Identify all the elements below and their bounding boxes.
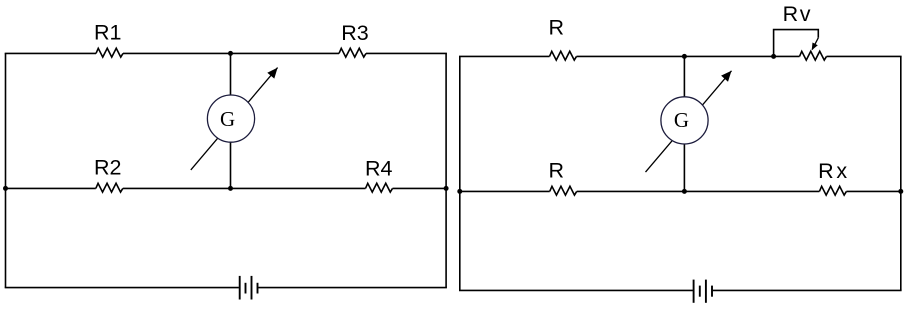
svg-text:R2: R2 xyxy=(94,156,121,180)
svg-text:R: R xyxy=(549,159,565,183)
node: middle galvanometer junction xyxy=(228,186,233,191)
svg-text:R4: R4 xyxy=(365,157,393,181)
wire middle center segment xyxy=(123,187,366,189)
wire Rv wiper bracket xyxy=(774,30,819,57)
wire top middle segment xyxy=(577,55,800,57)
wire middle center segment xyxy=(577,190,820,192)
svg-text:G: G xyxy=(220,107,235,131)
wire right edge right circuit xyxy=(900,56,902,290)
galvanometer needle line (under circle) xyxy=(191,68,278,170)
battery B2 xyxy=(694,280,712,303)
svg-text:Rv: Rv xyxy=(783,2,811,26)
wire galvanometer branch vertical xyxy=(230,53,232,188)
wire bottom right segment xyxy=(713,289,902,291)
node: right middle junction xyxy=(898,189,903,194)
resistor R2 xyxy=(96,183,123,192)
wire bottom left segment xyxy=(5,287,239,289)
battery B1 xyxy=(240,276,258,300)
svg-text:Rx: Rx xyxy=(818,159,847,183)
wire middle left segment xyxy=(459,190,550,192)
wire top right segment xyxy=(827,55,902,57)
galvanometer needle arrowhead xyxy=(267,68,277,79)
wire top right segment xyxy=(366,52,447,54)
resistor R1 xyxy=(96,48,123,57)
node: middle galvanometer junction xyxy=(682,189,687,194)
resistor R top xyxy=(550,51,577,60)
Rv wiper arrow line xyxy=(812,38,818,50)
node: top galvanometer junction xyxy=(682,54,687,59)
svg-text:R: R xyxy=(549,16,565,40)
wire middle right segment xyxy=(393,187,447,189)
resistor R3 xyxy=(339,48,366,57)
wire bottom left segment xyxy=(459,289,693,291)
node: Rv bracket junction xyxy=(771,54,776,59)
wire galvanometer branch vertical xyxy=(683,56,685,191)
node: right middle junction xyxy=(444,186,449,191)
resistor R4 xyxy=(366,183,393,192)
wire top left segment xyxy=(459,55,550,57)
wire top left segment xyxy=(5,52,96,54)
node: top galvanometer junction xyxy=(228,51,233,56)
wire left edge xyxy=(5,53,7,287)
galvanometer needle line (under circle) xyxy=(646,71,732,172)
wire middle left segment xyxy=(5,187,96,189)
resistor R bottom xyxy=(550,186,577,195)
galvanometer needle arrowhead xyxy=(721,71,731,82)
wire bottom right segment xyxy=(258,287,447,289)
wire top middle segment xyxy=(123,52,339,54)
galvanometer G1 circle xyxy=(207,95,254,142)
resistor Rx xyxy=(819,186,846,195)
svg-text:G: G xyxy=(674,108,689,132)
Rv wiper arrowhead xyxy=(812,43,818,51)
galvanometer G2 circle xyxy=(661,97,708,144)
resistor Rv zigzag xyxy=(800,51,827,60)
node: left middle junction xyxy=(457,189,462,194)
node: left middle junction xyxy=(3,186,8,191)
wire right edge xyxy=(445,53,447,287)
svg-text:R1: R1 xyxy=(94,21,121,45)
svg-text:R3: R3 xyxy=(341,21,369,45)
wire middle right segment xyxy=(846,190,901,192)
wire left edge right circuit xyxy=(459,56,461,290)
